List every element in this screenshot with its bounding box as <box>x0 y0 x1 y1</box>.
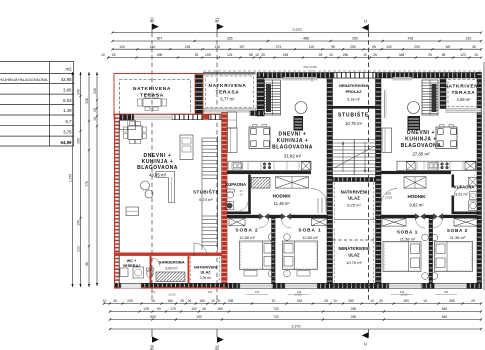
svg-text:15: 15 <box>151 299 155 303</box>
left poufs <box>141 181 150 190</box>
middle tv/fridge <box>294 116 304 131</box>
svg-text:298: 298 <box>228 299 234 303</box>
right bath door <box>452 188 455 196</box>
left vertical dimension chains <box>72 72 74 287</box>
middle bathroom <box>248 175 251 214</box>
svg-text:120: 120 <box>309 45 315 49</box>
step line in ulaz <box>334 219 376 221</box>
bedroom divider middle <box>272 218 276 284</box>
svg-text:TERASA: TERASA <box>140 92 164 98</box>
left kitchen counter <box>120 121 136 130</box>
left dining table <box>128 126 142 140</box>
left bottom window <box>121 284 141 289</box>
svg-text:25: 25 <box>93 108 97 112</box>
svg-text:123: 123 <box>460 53 466 57</box>
svg-text:4,59 m²: 4,59 m² <box>457 97 472 102</box>
left stairs <box>202 137 218 139</box>
svg-text:KUHINJA +: KUHINJA + <box>405 137 437 143</box>
svg-text:25: 25 <box>373 53 377 57</box>
right entry door arc <box>381 189 397 205</box>
area table top-left <box>0 62 74 147</box>
svg-text:10: 10 <box>101 53 105 57</box>
svg-text:120: 120 <box>386 45 392 49</box>
svg-text:197: 197 <box>239 45 245 49</box>
svg-text:650: 650 <box>442 307 448 311</box>
svg-text:240: 240 <box>76 89 80 95</box>
middle bath door <box>240 203 248 211</box>
wc partition <box>150 256 152 283</box>
svg-text:105: 105 <box>205 53 211 57</box>
svg-text:775: 775 <box>85 181 89 187</box>
svg-text:213: 213 <box>76 246 80 252</box>
svg-text:95: 95 <box>372 45 376 49</box>
svg-text:12,80 m²: 12,80 m² <box>239 235 255 240</box>
left kitchen island <box>180 135 193 160</box>
svg-text:6,77 m²: 6,77 m² <box>221 97 236 102</box>
svg-text:240: 240 <box>297 290 302 294</box>
middle soba1 bed <box>283 241 318 270</box>
svg-text:DNEVNI +: DNEVNI + <box>278 132 306 138</box>
svg-text:BLAGOVAONA: BLAGOVAONA <box>137 165 178 171</box>
svg-text:27R 17/29: 27R 17/29 <box>303 65 317 69</box>
svg-text:125: 125 <box>143 307 149 311</box>
svg-text:10,70 m²: 10,70 m² <box>346 260 362 265</box>
svg-text:667: 667 <box>157 37 163 41</box>
right dining table <box>436 127 457 149</box>
svg-text:250: 250 <box>351 315 357 319</box>
svg-text:6,70 m²: 6,70 m² <box>199 197 213 202</box>
left unit top wall <box>114 115 134 120</box>
svg-text:95: 95 <box>331 45 335 49</box>
left unit interior wall above wc row <box>114 253 222 256</box>
svg-text:3,06: 3,06 <box>63 88 72 93</box>
svg-text:TERASA: TERASA <box>452 90 476 96</box>
svg-text:BLAGOVAONA: BLAGOVAONA <box>272 145 313 151</box>
svg-text:250: 250 <box>350 45 356 49</box>
svg-text:HODNIK: HODNIK <box>273 193 292 198</box>
svg-text:25: 25 <box>324 299 328 303</box>
svg-text:3,00 m²: 3,00 m² <box>165 266 178 270</box>
right kitchen counter <box>397 161 476 170</box>
svg-text:195: 195 <box>185 45 191 49</box>
svg-text:11,48 m²: 11,48 m² <box>274 201 291 206</box>
wall below terrace middle <box>250 111 264 116</box>
svg-text:250: 250 <box>348 299 354 303</box>
svg-text:C: C <box>363 20 368 23</box>
svg-text:VEŠERAJ: VEŠERAJ <box>123 263 141 268</box>
left terrace pier <box>195 74 203 115</box>
svg-text:SOBA 1: SOBA 1 <box>298 228 321 233</box>
svg-text:98: 98 <box>249 53 253 57</box>
svg-text:235: 235 <box>127 299 133 303</box>
bottom dimension chains <box>104 303 481 305</box>
svg-text:90: 90 <box>157 307 161 311</box>
svg-text:488: 488 <box>303 37 309 41</box>
middle corridor wardrobes <box>252 177 271 188</box>
left sofa <box>156 172 175 203</box>
top dimension chains <box>113 32 482 34</box>
top window middle <box>283 77 317 80</box>
svg-text:45: 45 <box>202 307 206 311</box>
svg-text:283: 283 <box>403 299 409 303</box>
middle corridor/bedroom wall <box>227 215 259 218</box>
svg-text:27,85 m²: 27,85 m² <box>412 152 430 157</box>
middle soba2 bed <box>240 241 275 270</box>
svg-text:170: 170 <box>170 307 176 311</box>
svg-text:150: 150 <box>196 315 202 319</box>
middle dining table <box>249 127 270 149</box>
svg-text:TERASA: TERASA <box>216 90 240 96</box>
svg-text:64,99: 64,99 <box>61 140 73 145</box>
left bench <box>126 207 139 216</box>
svg-text:DNEVNI +: DNEVNI + <box>407 130 435 136</box>
svg-text:10: 10 <box>255 53 259 57</box>
svg-text:11,38 m²: 11,38 m² <box>450 235 466 240</box>
right terrace pier <box>440 77 446 109</box>
svg-text:650: 650 <box>442 315 448 319</box>
middle entry door arc <box>311 189 327 205</box>
svg-text:B0: B0 <box>150 17 155 23</box>
svg-text:C: C <box>363 343 368 346</box>
svg-text:30: 30 <box>188 299 192 303</box>
svg-text:NATKRIVENA: NATKRIVENA <box>444 84 482 90</box>
right bedroom divider <box>429 218 433 284</box>
svg-text:PROLAZ: PROLAZ <box>346 89 363 94</box>
right round table <box>408 102 420 114</box>
middle tall cabinet <box>228 112 237 128</box>
svg-text:150: 150 <box>199 299 205 303</box>
svg-text:100: 100 <box>191 307 197 311</box>
svg-text:240: 240 <box>150 45 156 49</box>
garderoba partition <box>188 256 190 283</box>
svg-text:9,82 m²: 9,82 m² <box>409 203 424 208</box>
svg-text:720: 720 <box>273 307 279 311</box>
svg-text:25: 25 <box>379 299 383 303</box>
svg-text:SOBA 2: SOBA 2 <box>235 228 258 233</box>
svg-text:332: 332 <box>297 299 303 303</box>
svg-text:ULAZ: ULAZ <box>200 270 211 274</box>
svg-text:10: 10 <box>370 299 374 303</box>
left natkriveni ulaz dashes <box>190 257 192 284</box>
svg-text:1,49: 1,49 <box>63 108 72 113</box>
svg-text:NENATKRIVENI: NENATKRIVENI <box>338 246 369 251</box>
svg-text:2.270: 2.270 <box>293 28 302 32</box>
svg-text:25: 25 <box>112 53 116 57</box>
left terrace table <box>143 99 161 107</box>
svg-text:10,75 m²: 10,75 m² <box>345 121 363 126</box>
svg-text:418: 418 <box>283 53 289 57</box>
svg-text:100: 100 <box>76 220 80 226</box>
svg-text:10: 10 <box>333 299 337 303</box>
svg-text:ULAZ: ULAZ <box>348 253 360 258</box>
middle bedroom doors (bowties) <box>259 213 264 220</box>
svg-text:6,25 m²: 6,25 m² <box>347 203 361 208</box>
right stair treads <box>422 80 438 115</box>
svg-text:HODNIK: HODNIK <box>407 194 426 199</box>
svg-text:5,18 m²: 5,18 m² <box>347 98 361 102</box>
svg-text:NATKRIVENA: NATKRIVENA <box>133 86 171 92</box>
svg-text:15: 15 <box>474 53 478 57</box>
svg-text:418: 418 <box>408 37 414 41</box>
svg-text:B1: B1 <box>215 17 220 23</box>
svg-text:150: 150 <box>217 307 223 311</box>
svg-text:GARDEROBA: GARDEROBA <box>158 259 184 264</box>
svg-text:STUBIŠTE: STUBIŠTE <box>338 111 369 119</box>
svg-text:31,82 m²: 31,82 m² <box>284 154 302 159</box>
svg-text:KUPAONA: KUPAONA <box>225 182 246 187</box>
svg-text:20: 20 <box>272 299 276 303</box>
middle kitchen appliance <box>302 162 311 170</box>
svg-text:NATKRIVENI: NATKRIVENI <box>194 265 217 269</box>
middle sofa <box>228 128 238 153</box>
left unit bottom wall <box>114 283 227 287</box>
svg-text:250: 250 <box>343 53 349 57</box>
svg-text:120: 120 <box>208 290 213 294</box>
svg-text:265: 265 <box>449 299 455 303</box>
svg-text:m2: m2 <box>66 67 73 72</box>
svg-text:124: 124 <box>227 53 233 57</box>
svg-text:720: 720 <box>273 315 279 319</box>
svg-text:12,80 m²: 12,80 m² <box>302 235 318 240</box>
right tv cabinet <box>408 116 421 130</box>
garderoba closet <box>156 272 185 282</box>
svg-text:15: 15 <box>423 299 427 303</box>
svg-text:240: 240 <box>400 290 405 294</box>
right bathroom <box>452 175 455 214</box>
svg-text:43,95: 43,95 <box>61 77 72 82</box>
stair cut line <box>334 146 375 168</box>
svg-text:180: 180 <box>167 299 173 303</box>
svg-text:348: 348 <box>399 53 405 57</box>
middle terrace parapet <box>203 72 256 74</box>
svg-text:±0,00: ±0,00 <box>169 293 176 297</box>
right unit left wall (stair shaft right) <box>376 78 382 284</box>
bottom exterior wall <box>227 283 482 288</box>
right exterior wall <box>477 73 482 289</box>
nenatkriveni ulaz sides <box>334 229 336 285</box>
middle terrace glass door <box>204 108 256 112</box>
svg-text:25: 25 <box>113 299 117 303</box>
right bedroom closets <box>382 218 406 226</box>
right terrace glass <box>446 108 481 112</box>
svg-text:232: 232 <box>466 37 472 41</box>
natkriveni ulaz roof dashes <box>334 183 336 224</box>
svg-text:43,95 m²: 43,95 m² <box>149 173 167 178</box>
middle bedroom door arcs <box>259 219 269 229</box>
svg-text:240: 240 <box>255 290 260 294</box>
passage wall <box>333 106 376 109</box>
svg-text:2,26 m²: 2,26 m² <box>200 276 213 280</box>
svg-text:ULAZ: ULAZ <box>348 196 360 201</box>
svg-text:SOBA 1: SOBA 1 <box>397 230 418 235</box>
svg-text:10: 10 <box>363 53 367 57</box>
middle terrace roof dashed <box>206 76 254 108</box>
grid line B1 <box>216 24 218 33</box>
left/middle party wall <box>222 111 228 289</box>
svg-text:495: 495 <box>157 53 163 57</box>
svg-text:B1: B1 <box>215 344 220 350</box>
svg-text:240: 240 <box>444 290 449 294</box>
svg-text:25: 25 <box>319 53 323 57</box>
svg-text:BLAGOVAONA: BLAGOVAONA <box>401 143 442 149</box>
svg-text:17/29: 17/29 <box>385 196 393 200</box>
svg-text:3,51 m²: 3,51 m² <box>455 193 469 197</box>
svg-text:10: 10 <box>93 117 97 121</box>
svg-text:325: 325 <box>227 37 233 41</box>
right soba1 bed <box>383 242 421 272</box>
svg-text:KUHINJA +: KUHINJA + <box>277 138 309 144</box>
right corridor/bedroom wall <box>381 215 416 218</box>
left unit terrace outline red <box>114 74 203 116</box>
svg-text:25: 25 <box>428 53 432 57</box>
middle stair treads <box>265 80 281 115</box>
wall below stairs <box>333 178 376 182</box>
svg-text:25: 25 <box>216 299 220 303</box>
svg-text:25: 25 <box>261 53 265 57</box>
svg-text:273: 273 <box>276 45 282 49</box>
svg-text:25: 25 <box>195 53 199 57</box>
svg-text:3,76: 3,76 <box>63 130 72 135</box>
svg-text:NATKRIVENI: NATKRIVENI <box>341 190 368 195</box>
wc fixtures <box>133 267 144 278</box>
right sofa <box>382 128 392 153</box>
left entry door arc <box>194 243 207 256</box>
right soba2 bed <box>435 242 473 272</box>
svg-text:120: 120 <box>119 45 125 49</box>
garderoba door arc <box>152 258 160 266</box>
right corridor wardrobe <box>404 177 426 188</box>
svg-text:35: 35 <box>472 45 476 49</box>
svg-text:10: 10 <box>329 53 333 57</box>
stair flight shaft <box>333 139 376 141</box>
svg-text:120: 120 <box>151 290 156 294</box>
grid line B0 <box>151 24 153 33</box>
svg-text:25: 25 <box>471 299 475 303</box>
bottom windows <box>240 284 272 289</box>
right terrace roof dashed <box>448 80 479 107</box>
middle round table <box>295 102 307 114</box>
prolaz top lighter blocks <box>334 73 376 79</box>
svg-text:300: 300 <box>76 138 80 144</box>
svg-text:336: 336 <box>85 98 89 104</box>
svg-text:SOBA 2: SOBA 2 <box>447 228 468 233</box>
svg-text:98: 98 <box>442 53 446 57</box>
left terrace roof dashed <box>120 80 191 115</box>
svg-text:NENATKRIVENI: NENATKRIVENI <box>339 83 368 88</box>
svg-text:6,7: 6,7 <box>66 119 73 124</box>
middle kitchen counter <box>228 161 311 170</box>
svg-text:10: 10 <box>211 299 215 303</box>
svg-text:WC +: WC + <box>127 259 137 263</box>
svg-text:NATKRIVENA: NATKRIVENA <box>208 83 246 89</box>
svg-text:2.270: 2.270 <box>292 325 301 329</box>
right kitchen wall <box>381 171 451 174</box>
roof edge dashed <box>333 239 376 241</box>
left terrace window/door <box>134 115 172 120</box>
svg-text:B0: B0 <box>150 344 155 350</box>
svg-text:245: 245 <box>93 88 97 94</box>
svg-text:250: 250 <box>351 307 357 311</box>
left unit left wall <box>114 115 119 289</box>
grid line C <box>368 24 370 33</box>
svg-text:6,03: 6,03 <box>63 98 72 103</box>
right bedroom door arcs <box>416 219 426 229</box>
svg-text:96: 96 <box>85 262 89 266</box>
svg-text:187: 187 <box>445 45 451 49</box>
svg-text:250: 250 <box>352 37 358 41</box>
svg-text:130: 130 <box>215 45 221 49</box>
svg-text:203: 203 <box>414 45 420 49</box>
svg-text:KUPAONA: KUPAONA <box>454 185 475 190</box>
right bedroom doors <box>415 213 420 220</box>
middle bedroom closets <box>229 218 245 226</box>
svg-text:STUBIŠTE: STUBIŠTE <box>193 188 219 195</box>
middle unit top wall <box>257 73 481 79</box>
stair pier middle <box>257 77 264 116</box>
svg-text:25: 25 <box>180 299 184 303</box>
svg-text:DNEVNA+KUHINJA+BLAGOVAONA: DNEVNA+KUHINJA+BLAGOVAONA <box>0 77 48 82</box>
roof overhang dashed line <box>203 70 481 72</box>
middle kitchen wall <box>227 171 311 174</box>
middle entry shoe closet <box>317 198 319 213</box>
middle unit right wall (stair shaft left) <box>327 78 333 284</box>
right top window <box>393 77 412 80</box>
svg-text:11,38 m²: 11,38 m² <box>400 236 416 241</box>
svg-text:1.070: 1.070 <box>68 174 72 182</box>
